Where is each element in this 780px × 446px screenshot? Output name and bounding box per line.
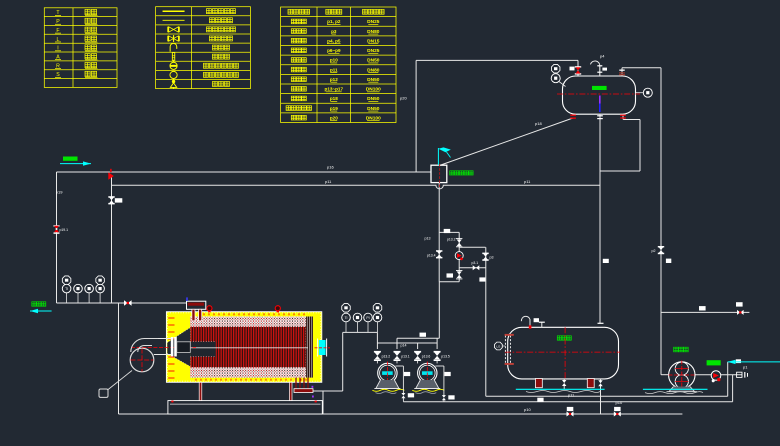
- wire instrument header: [343, 331, 378, 333]
- wire drain drop x118: [118, 303, 120, 414]
- pump stand: [416, 380, 439, 388]
- valve p13.1: [394, 351, 401, 353]
- svg-text:p6~p9: p6~p9: [327, 48, 341, 53]
- storage tank shell: [508, 327, 619, 379]
- storage tank level gauge: [504, 336, 506, 365]
- svg-text:p18: p18: [535, 121, 542, 126]
- svg-text:p3: p3: [331, 29, 337, 34]
- pump stand: [376, 380, 399, 388]
- pump ground wave (yellow): [412, 389, 444, 391]
- burner flange: [171, 337, 174, 357]
- burner oil box: [99, 389, 108, 397]
- burner crosshair: [131, 359, 154, 361]
- expansion tank vent p4: [599, 66, 601, 76]
- expansion tank bottom-right elbow: [623, 114, 640, 120]
- valve p13.6: [414, 351, 421, 353]
- svg-text:p13.4: p13.4: [427, 254, 436, 258]
- wire storage drain drop: [600, 386, 602, 415]
- burner elbow duct: [131, 339, 158, 353]
- storage tank bottom center valve: [563, 379, 565, 381]
- instruments on return line: [62, 276, 71, 285]
- blowdown line valves: [567, 412, 571, 417]
- separator vent flag: [437, 148, 439, 165]
- wire bypass branch p3: [459, 267, 485, 269]
- wire p18 diagonal vent: [440, 118, 573, 165]
- svg-text:p20: p20: [400, 96, 407, 101]
- storage tank ground wave: [526, 391, 600, 393]
- svg-text:p13.5: p13.5: [441, 355, 450, 359]
- wire blowdown riser x323: [322, 391, 324, 414]
- label air separator: [450, 171, 454, 175]
- expansion tank level tube: [599, 96, 601, 104]
- wire expansion tank right downcomer: [639, 120, 641, 172]
- boiler support left: [199, 382, 202, 401]
- burner flame tube recess: [190, 342, 216, 357]
- bypass top label: [444, 229, 451, 233]
- boiler top nozzle 2: [275, 306, 280, 311]
- wire bypass to p13 pump feed: [438, 282, 440, 339]
- label m: [570, 67, 575, 71]
- wire branch at y312: [661, 311, 749, 313]
- wire top link to x661: [622, 67, 661, 69]
- wire p20 top run: [416, 59, 578, 61]
- boiler support right: [289, 382, 292, 401]
- legend table 1: instrument letter codes: [44, 8, 117, 88]
- wire p16 supply header: [57, 171, 431, 173]
- svg-text:p11: p11: [568, 393, 575, 398]
- wire expansion tank nozzle stub left: [577, 60, 579, 76]
- valve on p19 riser: [54, 225, 60, 226]
- wire p11 with pipe hop: [112, 185, 600, 189]
- boiler inlet twin pipes: [192, 309, 195, 321]
- storage tank legs: [535, 379, 542, 388]
- wire boiler outlet header link: [313, 390, 343, 392]
- legend table 2: symbols: [156, 7, 251, 89]
- svg-text:p11: p11: [330, 67, 338, 72]
- svg-text:p19: p19: [56, 190, 63, 195]
- return arrow cyan: [30, 310, 52, 312]
- wire p2 long riser x661: [660, 68, 662, 375]
- transfer pump base water line: [643, 388, 708, 390]
- expansion tank shell: [563, 76, 636, 114]
- air separator vessel: [431, 165, 447, 182]
- instrument LG: [495, 342, 503, 350]
- svg-text:PI: PI: [366, 316, 369, 320]
- wire bottom line A: [486, 395, 728, 397]
- svg-text:p11: p11: [325, 179, 332, 184]
- furnace opening (flame cone): [167, 328, 190, 367]
- storage tank bottom right valve: [600, 379, 602, 381]
- wire fill riser x485: [485, 247, 487, 396]
- storage tank base water line: [516, 388, 605, 390]
- wire transfer pump suction: [696, 374, 743, 376]
- svg-text:p10: p10: [524, 407, 531, 412]
- wire bypass riser: [458, 232, 460, 281]
- svg-text:p10: p10: [616, 400, 623, 405]
- supply arrow cyan: [728, 361, 780, 363]
- svg-text:p20: p20: [330, 115, 338, 120]
- svg-text:p13.1: p13.1: [401, 355, 410, 359]
- wire return line to boiler: [57, 302, 187, 304]
- svg-text:p1, p2: p1, p2: [327, 19, 341, 24]
- wire expansion tank nozzle stub right: [621, 68, 623, 76]
- burner blower body: [130, 348, 154, 372]
- storage tank top stub 1: [541, 323, 543, 328]
- svg-text:p14: p14: [401, 343, 407, 347]
- expansion tank bottom-center nozzle: [599, 114, 601, 120]
- bypass valves: [436, 250, 442, 252]
- boiler sight port: [319, 340, 326, 355]
- svg-text:LG: LG: [496, 345, 501, 349]
- svg-text:TI: TI: [344, 316, 347, 320]
- valve p13.2: [374, 351, 381, 353]
- storage tank label: [557, 336, 561, 340]
- svg-text:p13.6: p13.6: [422, 355, 431, 359]
- branch valve p3.1: [473, 265, 476, 270]
- svg-text:p3.1: p3.1: [472, 261, 479, 265]
- bypass check valve: [455, 252, 463, 260]
- wire bottom line B: [403, 401, 732, 403]
- expansion tank bottom-left nozzle: [570, 115, 576, 116]
- transfer pump stand: [669, 387, 695, 392]
- wire bypass top: [439, 231, 459, 233]
- storage tank centerline h: [505, 351, 620, 353]
- supply green tag: [707, 360, 721, 365]
- wire pump manifold upper: [397, 337, 439, 339]
- wire stack drops: [376, 332, 378, 349]
- expansion tank centerline: [557, 93, 640, 95]
- svg-text:p4: p4: [600, 54, 605, 59]
- boiler blowdown header: [294, 389, 313, 393]
- expansion tank nameplate: [592, 86, 607, 90]
- instruments mid row: [342, 304, 351, 313]
- transfer pump check valve: [711, 371, 721, 381]
- fill riser valve: [482, 253, 488, 255]
- wire riser x732: [732, 375, 734, 402]
- svg-text:p3: p3: [490, 255, 494, 259]
- pump2 discharge: [435, 365, 444, 367]
- supply fitting p1: [737, 372, 742, 377]
- supply arrow top-left: [60, 163, 91, 165]
- instrument PI right of expansion tank: [643, 88, 652, 97]
- wire expansion to storage drop x600: [599, 120, 601, 324]
- svg-text:p19: p19: [330, 106, 338, 111]
- instrument TI on expansion tank: [551, 64, 560, 73]
- svg-text:p19.1: p19.1: [60, 228, 69, 232]
- wire p12 drop at x111: [111, 175, 113, 303]
- svg-text:p16: p16: [327, 165, 334, 170]
- storage tank top stub 2 (fill): [598, 322, 604, 324]
- svg-text:p12: p12: [330, 77, 338, 82]
- wire p13 down from separator: [438, 183, 440, 282]
- wire p19 riser left: [56, 172, 58, 303]
- safety valve on p16 at x111: [108, 172, 114, 180]
- transfer pump label: [674, 347, 679, 352]
- expansion tank inlet valve (red): [575, 66, 581, 67]
- pump ground wave (yellow): [372, 389, 404, 391]
- boiler inlet header cap: [187, 301, 206, 309]
- branch y312 labels: [699, 306, 706, 310]
- wire blowdown line p10: [119, 413, 683, 415]
- pump1 discharge: [396, 365, 404, 367]
- burner throat: [177, 342, 191, 353]
- expansion tank right stub flanges: [619, 70, 624, 71]
- svg-text:p13: p13: [425, 237, 431, 241]
- svg-text:p1: p1: [743, 364, 748, 369]
- valve on p2 riser: [658, 246, 664, 248]
- boiler rear tube sheet: [306, 317, 313, 378]
- svg-text:p2: p2: [652, 249, 656, 253]
- boiler tube bundle: [190, 317, 306, 378]
- svg-text:p13~p17: p13~p17: [325, 87, 344, 92]
- svg-text:p18: p18: [330, 96, 338, 101]
- valve p13.5: [434, 351, 441, 353]
- wire storage center drain stub: [563, 385, 565, 389]
- wire pump suction riser: [342, 332, 344, 391]
- wire p20 riser: [415, 60, 417, 172]
- boiler centerline: [176, 347, 308, 349]
- valve on return line: [124, 300, 128, 306]
- red refractory ticks: [168, 313, 306, 381]
- boiler blowdown tubes: [296, 378, 308, 389]
- instrument LI on expansion tank: [551, 74, 560, 83]
- wire pump manifold lower: [377, 342, 437, 344]
- valve on x111 drop: [108, 196, 114, 198]
- wire bypass bottom: [439, 281, 459, 283]
- svg-text:p13.2: p13.2: [382, 355, 391, 359]
- svg-text:p13.2: p13.2: [447, 238, 456, 242]
- svg-text:p11: p11: [524, 179, 531, 184]
- branch y312 valve: [737, 310, 740, 315]
- supply green tag top-left: [63, 157, 78, 161]
- pipeline schedule table: [281, 7, 396, 123]
- svg-text:p4, p5: p4, p5: [327, 38, 341, 43]
- circulation pump P2: [418, 363, 437, 382]
- wire riser x727: [727, 362, 729, 396]
- boiler casing: [166, 312, 321, 383]
- svg-text:TI: TI: [65, 287, 68, 291]
- boiler top nozzle 1: [207, 306, 212, 311]
- transfer pump body: [669, 362, 695, 388]
- manifold label box: [420, 333, 427, 337]
- boiler base rail: [168, 401, 322, 414]
- svg-text:p10: p10: [330, 58, 338, 63]
- storage tank centerline v: [564, 327, 566, 380]
- wire tee to fill riser: [459, 246, 485, 248]
- circulation pump P1: [378, 363, 397, 382]
- storage tank vent hook: [521, 316, 530, 327]
- label 供热站: [32, 302, 36, 306]
